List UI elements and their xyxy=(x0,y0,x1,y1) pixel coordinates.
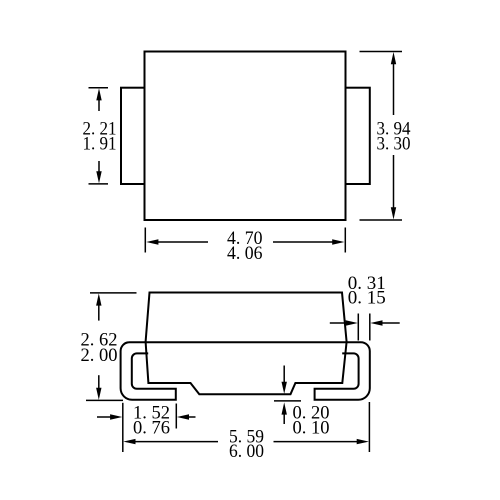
dimension 3.94/3.30 tick bottom xyxy=(360,219,403,221)
svg-text:1. 91: 1. 91 xyxy=(83,135,117,155)
dimension 1.52/0.76 extension right xyxy=(175,404,177,429)
dimension 0.20/0.10 arrow down xyxy=(282,366,287,394)
dimension 2.62/2.00 tick bottom xyxy=(86,399,123,401)
side view left lead xyxy=(121,342,176,400)
side view waist line xyxy=(130,341,362,343)
dimension 2.21/1.91 arrow down xyxy=(96,161,101,183)
svg-text:0. 76: 0. 76 xyxy=(133,419,170,439)
top view body xyxy=(145,52,346,221)
dimension 5.59/6.00 arrow left xyxy=(123,439,218,444)
dimension 2.62/2.00 arrow down xyxy=(96,375,101,400)
dimension 3.94/3.30 arrow up xyxy=(391,52,396,115)
svg-text:4. 06: 4. 06 xyxy=(227,244,263,264)
dimension 4.70/4.06 arrow left xyxy=(146,239,208,244)
svg-text:2. 00: 2. 00 xyxy=(81,346,118,366)
dimension 2.21/1.91 tick bottom xyxy=(89,183,109,185)
dimension 3.94/3.30 arrow down xyxy=(391,155,396,220)
dimension 0.31/0.15 arrow right xyxy=(370,320,399,325)
top view right tab xyxy=(346,88,370,184)
dimension 5.59/6.00 extension left xyxy=(122,403,124,452)
svg-text:0. 10: 0. 10 xyxy=(293,419,330,439)
dimension 5.59/6.00 arrow right xyxy=(274,439,369,444)
top view left tab xyxy=(121,88,145,184)
dimension 5.59/6.00 extension right xyxy=(368,402,370,452)
dimension 0.31/0.15 tick left xyxy=(357,314,359,341)
dimension 2.62/2.00 tick top xyxy=(90,292,137,294)
dimension 0.20/0.10 arrow up xyxy=(282,402,287,424)
dimension 3.94/3.30 tick top xyxy=(360,51,403,53)
svg-text:6. 00: 6. 00 xyxy=(229,442,264,462)
side view right lead xyxy=(315,342,370,400)
dimension 0.31/0.15 arrow left xyxy=(330,320,358,325)
dimension 2.62/2.00 arrow up xyxy=(96,293,101,320)
dimension 0.31/0.15 tick right xyxy=(369,314,371,341)
dimension 4.70/4.06 extension right xyxy=(344,228,346,253)
svg-text:0. 15: 0. 15 xyxy=(348,289,386,309)
dimension 1.52/0.76 arrow right xyxy=(177,414,196,419)
dimension 2.21/1.91 tick top xyxy=(89,87,109,89)
dimension 2.21/1.91 arrow up xyxy=(96,88,101,111)
dimension 0.20/0.10 seating tick xyxy=(274,400,301,402)
dimension 4.70/4.06 arrow right xyxy=(273,239,344,244)
svg-text:3. 30: 3. 30 xyxy=(377,135,411,155)
dimension 1.52/0.76 arrow left xyxy=(97,414,122,419)
side view body outline xyxy=(146,293,347,395)
dimension 4.70/4.06 extension left xyxy=(144,228,146,253)
